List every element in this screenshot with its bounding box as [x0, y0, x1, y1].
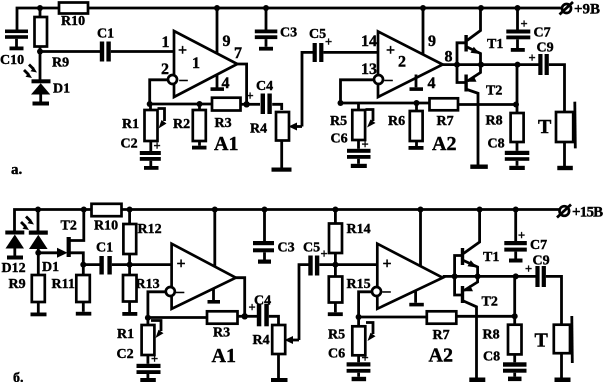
wire node to A2b +input — [335, 263, 377, 266]
light arrows at D1b — [21, 217, 34, 231]
potentiometer R4 — [250, 112, 302, 141]
wire A2b inverting input to feedback node — [359, 292, 373, 317]
svg-text:C3: C3 — [278, 241, 295, 256]
wire R4b bottom to ground — [277, 354, 280, 378]
pin 13 label — [361, 61, 377, 78]
ground under C8b — [508, 377, 522, 382]
svg-text:R6: R6 — [388, 114, 405, 129]
capacitor C2 — [121, 137, 161, 167]
wire +15V rail left segment — [15, 210, 92, 231]
node output-R8 — [515, 62, 521, 68]
transistor T2 input — [38, 210, 84, 265]
wire +9V rail right segment — [88, 7, 561, 10]
capacitor C1 — [97, 27, 114, 62]
wire A1 pin 9 to rail — [216, 8, 219, 54]
wire feedback line A1b — [148, 316, 207, 319]
wire A2b top to rail — [419, 210, 422, 267]
svg-text:2: 2 — [398, 54, 406, 71]
ground under C2b — [140, 378, 156, 382]
svg-text:C9: C9 — [537, 41, 554, 56]
pin 9 label A2 — [428, 33, 436, 50]
capacitor C10 — [0, 30, 28, 69]
svg-text:R7: R7 — [437, 114, 454, 129]
transducer T — [538, 102, 575, 166]
ground under R13 — [122, 312, 137, 316]
wire node to C4 — [247, 103, 260, 106]
pin 14 label — [361, 33, 377, 50]
svg-text:C3: C3 — [280, 26, 297, 41]
node bases tie — [454, 62, 460, 68]
node A1 output / C4 — [243, 101, 249, 107]
svg-text:+15В: +15В — [572, 205, 603, 221]
ground under C3 — [259, 47, 273, 51]
pin 9 label — [223, 33, 231, 50]
svg-text:C6: C6 — [331, 132, 348, 147]
node R9-C1-D1 — [37, 49, 43, 55]
wire feedback line A1 — [150, 103, 212, 106]
ground under C3b — [258, 260, 271, 264]
svg-text:T: T — [535, 330, 549, 352]
node R7-R8 — [513, 102, 519, 108]
svg-text:R14: R14 — [347, 222, 371, 237]
wire A1b top to rail — [213, 210, 216, 267]
wire node to C1 — [40, 50, 100, 53]
resistor R1b — [117, 318, 164, 355]
capacitor C4b — [249, 294, 272, 327]
svg-text:R15: R15 — [347, 277, 371, 292]
node output-R8b — [513, 273, 519, 279]
wire C5 to A2 +input — [323, 51, 378, 54]
svg-text:C2: C2 — [117, 347, 134, 362]
svg-text:14: 14 — [361, 33, 377, 50]
resistor R15 — [329, 265, 371, 313]
ground under R6 — [409, 146, 424, 150]
wire A2 inverting input to feedback node — [341, 80, 375, 103]
capacitor C8b — [483, 350, 527, 377]
svg-text:C6: C6 — [328, 347, 345, 362]
A1 pin 4 ground stub — [211, 75, 225, 91]
node rail-T1b — [477, 207, 483, 213]
wire feedback line A2 — [341, 102, 430, 105]
transistor T2 — [464, 65, 502, 165]
ground under R4 — [272, 168, 292, 172]
svg-text:T2: T2 — [486, 84, 502, 99]
inverting input circle A2 — [374, 75, 383, 84]
svg-text:D1: D1 — [53, 82, 70, 97]
svg-text:T1: T1 — [487, 37, 503, 52]
photodiode D1 — [31, 79, 70, 101]
svg-text:–: – — [175, 283, 185, 300]
wire C1b to node — [112, 263, 130, 266]
svg-text:R1: R1 — [117, 327, 134, 342]
node A1b feedback R1b — [145, 315, 151, 321]
svg-text:R10: R10 — [61, 14, 85, 29]
svg-text:C2: C2 — [121, 137, 138, 152]
svg-text:R1: R1 — [122, 117, 139, 132]
ground under C7 — [511, 48, 525, 52]
svg-text:D1: D1 — [42, 260, 59, 275]
op-amp A2b — [377, 244, 453, 367]
node T2b-R11-C1b — [80, 262, 86, 268]
svg-text:C8: C8 — [488, 137, 505, 152]
svg-text:C5: C5 — [309, 27, 326, 42]
svg-text:C7: C7 — [534, 26, 551, 41]
wire C4b to R4b — [269, 316, 279, 325]
capacitor C6b — [328, 347, 370, 377]
resistor R10 — [59, 3, 88, 30]
photodiode D1b — [29, 210, 59, 276]
ground under T2b — [469, 378, 485, 382]
node rail-T2b — [81, 207, 87, 213]
ground under T2 — [470, 165, 488, 169]
wire C9 to transducer — [549, 65, 565, 112]
wire base tie T1 T2 — [457, 43, 465, 83]
potentiometer R4b — [253, 325, 300, 354]
resistor R8b — [483, 325, 522, 355]
wire A2 output line — [443, 63, 539, 66]
resistor R5b — [328, 317, 376, 355]
svg-text:+: + — [525, 262, 532, 276]
svg-text:+9В: +9В — [574, 2, 600, 18]
node rail-R14 — [332, 207, 338, 213]
svg-text:4: 4 — [428, 75, 436, 92]
wire R4b wiper to C5b — [299, 265, 309, 340]
svg-text:1: 1 — [192, 55, 200, 72]
svg-text:T: T — [538, 116, 552, 138]
transistor T1 — [464, 8, 503, 65]
wire R3b to output node — [238, 315, 245, 318]
svg-text:R9: R9 — [52, 56, 69, 71]
ground under D12 — [7, 256, 23, 260]
svg-text:+: + — [178, 42, 187, 59]
resistor R7b — [427, 311, 457, 343]
wire R8b hang — [513, 276, 516, 324]
node R14-R15-C5b — [332, 262, 338, 268]
wire A1b inverting input to feedback node — [148, 292, 166, 318]
ground under Tb — [555, 378, 571, 382]
A2b ground stub — [409, 291, 424, 306]
wire base tie T1b T2b — [455, 256, 461, 296]
inverting input circle A1b — [166, 287, 175, 296]
capacitor C5 — [309, 27, 332, 62]
resistor R9 — [35, 8, 70, 71]
op-amp A2 — [378, 32, 456, 156]
capacitor C6 — [331, 132, 371, 164]
pin 1 label — [162, 34, 170, 51]
resistor R14 — [329, 210, 371, 265]
node rail-R9 — [37, 5, 43, 11]
inverting input circle A2b — [372, 287, 381, 296]
svg-text:9: 9 — [223, 33, 231, 50]
capacitor C5b — [303, 241, 328, 276]
pin 4 label — [222, 75, 230, 92]
ground under C7b — [509, 259, 523, 263]
svg-text:A1: A1 — [212, 345, 236, 367]
terminal +9V — [560, 2, 601, 18]
svg-text:б.: б. — [13, 371, 24, 382]
pin 7 label — [234, 45, 242, 62]
svg-text:C1: C1 — [96, 241, 113, 256]
svg-text:+: + — [529, 51, 536, 65]
photodiode D12 — [2, 231, 26, 277]
node rail-T1 — [478, 5, 484, 11]
svg-text:R2: R2 — [173, 117, 190, 132]
capacitor C1b — [96, 241, 113, 275]
svg-text:–: – — [382, 283, 392, 300]
svg-text:C4: C4 — [256, 79, 273, 94]
svg-text:+: + — [177, 256, 186, 273]
svg-text:A2: A2 — [432, 133, 456, 155]
svg-text:A2: A2 — [429, 345, 453, 367]
svg-text:D12: D12 — [2, 261, 26, 276]
node R7b-R8b — [512, 313, 518, 319]
wire C1 to A1 +input — [111, 50, 174, 53]
resistor R8 — [486, 113, 524, 142]
svg-text:+: + — [247, 89, 254, 103]
node R6 top — [414, 100, 420, 106]
svg-text:C10: C10 — [0, 53, 24, 68]
ground under C6b — [352, 377, 367, 381]
svg-text:C9: C9 — [533, 254, 550, 269]
wire node to C4b — [245, 315, 257, 318]
svg-text:T2: T2 — [482, 295, 498, 310]
wire A1 output — [237, 64, 246, 104]
resistor R3b — [207, 311, 238, 340]
svg-text:C5: C5 — [303, 241, 320, 256]
capacitor C9 — [529, 41, 554, 76]
svg-text:R3: R3 — [213, 326, 230, 341]
node rail-C3 — [263, 5, 269, 11]
svg-text:R7: R7 — [433, 328, 450, 343]
wire node to D1 — [39, 52, 42, 80]
node rail-C7b — [513, 207, 519, 213]
svg-text:R12: R12 — [138, 222, 162, 237]
wire R4 bottom to ground — [280, 141, 283, 168]
wire C9b to transducer — [546, 276, 562, 324]
capacitor C7b — [504, 210, 547, 259]
transistor T2b — [461, 276, 498, 377]
wire +15V rail right segment — [122, 208, 560, 211]
svg-text:+: + — [321, 247, 328, 261]
wire node to A1b +input — [130, 263, 172, 266]
svg-text:R8: R8 — [483, 328, 500, 343]
node rail-A2b — [418, 207, 424, 213]
op-amp A1b — [172, 244, 236, 367]
svg-text:R13: R13 — [136, 277, 160, 292]
terminal +15V — [557, 205, 603, 221]
wire C4 to R4 — [272, 104, 282, 110]
pin 8 label — [445, 49, 453, 66]
svg-text:R10: R10 — [94, 219, 118, 234]
A2 pin 4 ground stub — [410, 75, 424, 91]
svg-text:+: + — [386, 42, 395, 59]
node A1b output / C4b — [242, 313, 248, 319]
wire node to C1b — [83, 263, 99, 266]
svg-text:C8: C8 — [483, 350, 500, 365]
ground under R4b — [271, 378, 288, 382]
node A1 feedback R1 — [147, 101, 153, 107]
op-amp A1 — [174, 31, 238, 155]
wire A1b output — [236, 278, 245, 317]
svg-text:R8: R8 — [486, 114, 503, 129]
A1b ground stub — [208, 289, 221, 304]
node A2 feedback left — [338, 100, 344, 106]
ground under D1 — [33, 102, 50, 106]
resistor R3 — [212, 98, 241, 131]
svg-text:+: + — [383, 256, 392, 273]
resistor R1 — [122, 104, 167, 141]
node rail-R12 — [127, 207, 133, 213]
svg-text:–: – — [384, 71, 394, 88]
resistor R7 — [430, 98, 459, 129]
ground under R11 — [76, 312, 92, 316]
label b — [13, 371, 24, 382]
svg-text:R4: R4 — [250, 122, 267, 137]
svg-text:R5: R5 — [328, 328, 345, 343]
svg-text:+: + — [521, 17, 528, 31]
svg-text:+: + — [154, 139, 161, 153]
node bases tie b — [452, 273, 458, 279]
svg-text:7: 7 — [234, 45, 242, 62]
wire R7 to R8 node — [458, 103, 516, 106]
transducer Tb — [535, 316, 573, 378]
capacitor C3b — [253, 210, 295, 260]
node R12-R13-C1b — [127, 262, 133, 268]
node rail-A1pin9 — [214, 5, 220, 11]
capacitor C3 — [255, 8, 297, 47]
node rail-C7 — [515, 5, 521, 11]
ground under R9b — [31, 313, 47, 317]
ground under C10 — [10, 47, 24, 51]
node rail-C3b — [262, 207, 268, 213]
transistor T1b — [461, 210, 500, 277]
wire +9V rail left segment — [17, 8, 59, 30]
svg-text:9: 9 — [428, 33, 436, 50]
pin 2 label — [161, 61, 169, 78]
node rail-A2pin9 — [420, 5, 426, 11]
node A2b feedback R5b — [356, 314, 362, 320]
svg-text:1: 1 — [162, 34, 170, 51]
capacitor C8 — [488, 137, 530, 166]
node D1b-R9b-T2b — [35, 250, 41, 256]
ground under T — [557, 166, 573, 170]
ground under C2 — [144, 166, 159, 170]
inverting input circle A1 — [168, 75, 177, 84]
resistor R5 — [330, 103, 376, 140]
label a — [11, 162, 23, 178]
node emitters — [478, 62, 484, 68]
resistor R12 — [123, 210, 161, 265]
svg-text:R9: R9 — [9, 277, 26, 292]
wire A1 inverting input to feedback node — [150, 80, 169, 104]
svg-text:C1: C1 — [97, 27, 114, 42]
ground under R15 — [328, 312, 343, 316]
svg-text:+: + — [518, 229, 525, 243]
svg-text:R5: R5 — [330, 114, 347, 129]
wire R3 to output node — [241, 103, 247, 106]
svg-text:T2: T2 — [61, 219, 77, 234]
capacitor C9b — [525, 254, 550, 288]
resistor R10b — [92, 204, 122, 234]
wire R4 wiper to C5 — [302, 52, 313, 126]
svg-text:8: 8 — [445, 49, 453, 66]
wire node to R9b — [37, 253, 40, 275]
resistor R6 — [388, 103, 423, 146]
capacitor C7 — [506, 8, 550, 48]
wire R8 hang — [516, 65, 519, 113]
svg-text:T1: T1 — [483, 250, 499, 265]
node rail-A1b — [212, 207, 218, 213]
pin 4 label A2 — [428, 75, 436, 92]
resistor R2 — [173, 104, 206, 146]
resistor R13 — [123, 265, 160, 312]
wire A2 pin 9 to rail — [422, 8, 425, 54]
ground under C8 — [509, 166, 525, 170]
ground under R2 — [192, 146, 207, 150]
resistor R9b — [9, 275, 45, 313]
svg-text:а.: а. — [11, 162, 23, 178]
capacitor C4 — [247, 79, 274, 114]
svg-text:C4: C4 — [254, 294, 271, 309]
capacitor C2b — [117, 347, 161, 378]
svg-text:–: – — [179, 71, 189, 88]
svg-text:C7: C7 — [530, 238, 547, 253]
node rail-D1b — [35, 207, 41, 213]
svg-text:R3: R3 — [215, 116, 232, 131]
node emitters b — [475, 273, 481, 279]
svg-text:2: 2 — [161, 61, 169, 78]
wire C5b to node — [319, 263, 335, 266]
light arrows at D1 — [24, 65, 37, 79]
wire A2b output line — [443, 275, 536, 278]
node R2 top — [197, 101, 203, 107]
svg-text:R11: R11 — [52, 277, 75, 292]
resistor R11 — [52, 265, 90, 312]
wire R7b to R8b node — [456, 315, 514, 318]
svg-text:R4: R4 — [253, 333, 270, 348]
wire feedback line A2b — [359, 316, 427, 319]
svg-text:A1: A1 — [214, 133, 238, 155]
ground under C6 — [351, 164, 367, 168]
